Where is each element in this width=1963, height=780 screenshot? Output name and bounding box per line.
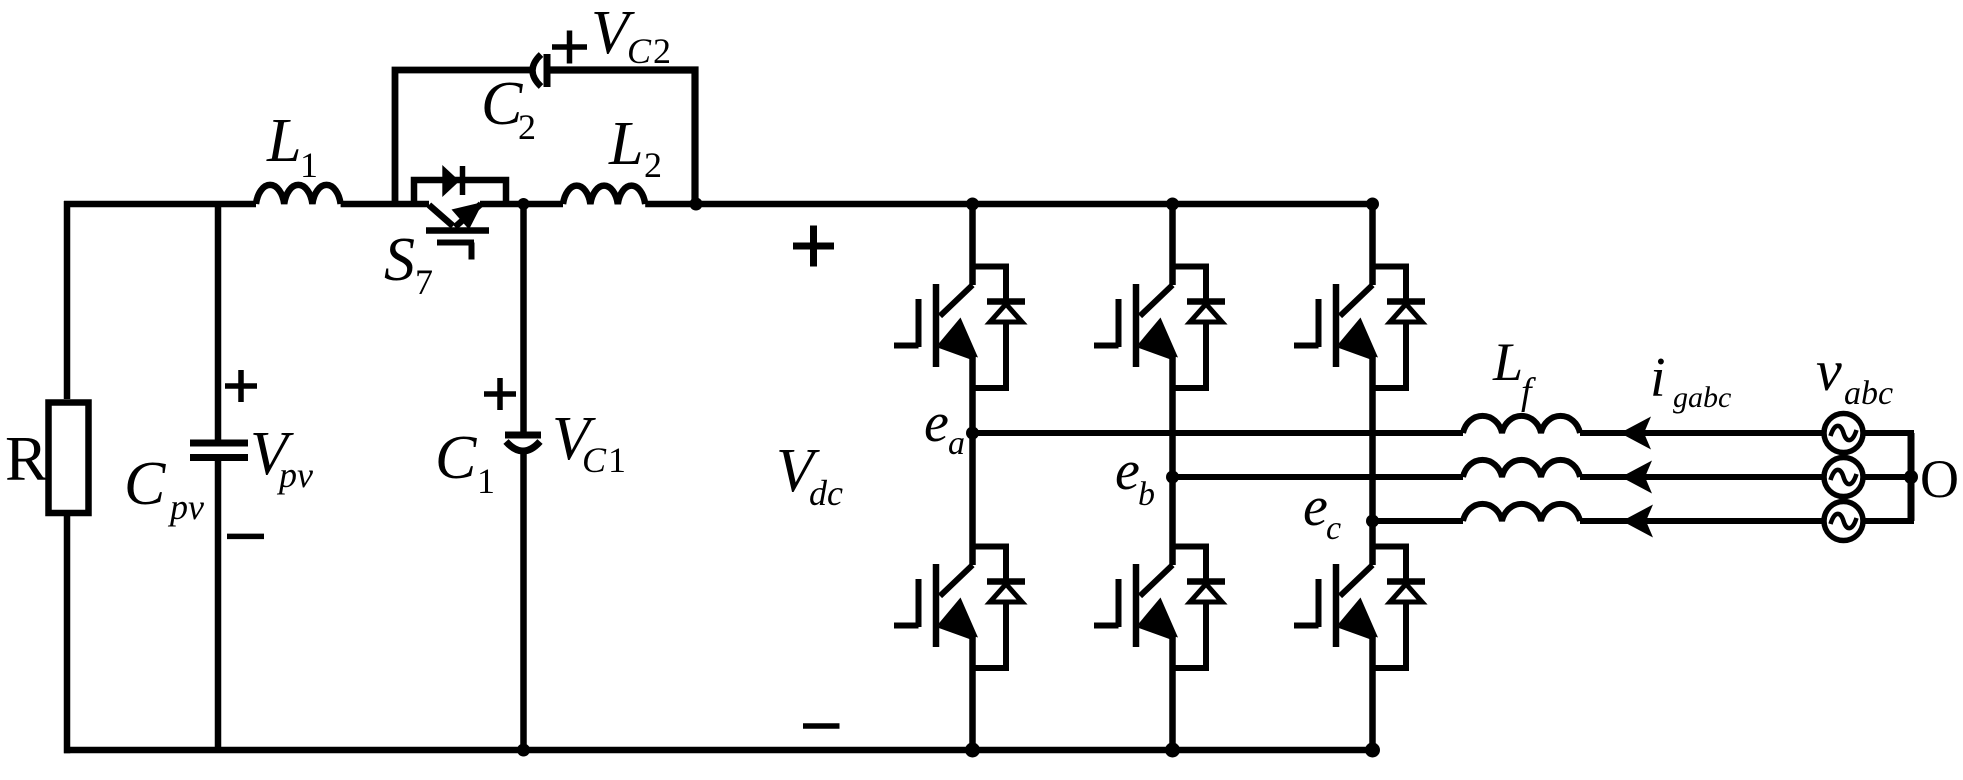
svg-text:R: R — [5, 423, 48, 494]
wire top rail right segment — [645, 201, 1376, 208]
arrow current phase b — [1621, 461, 1652, 494]
transistor S3 upper leg2 IGBT+diode — [1094, 267, 1225, 389]
transistor S5 upper leg3 IGBT+diode — [1294, 267, 1425, 389]
ac source c — [1824, 502, 1863, 541]
svg-text:7: 7 — [415, 262, 433, 302]
wire phase b line — [1173, 474, 1464, 480]
capacitor C1 straight plate — [505, 432, 541, 439]
inductor Lf c — [1463, 504, 1580, 521]
plus sign Vdc — [793, 226, 834, 267]
svg-text:dc: dc — [809, 473, 843, 513]
wire left vertical bottom — [64, 516, 71, 753]
svg-text:C: C — [481, 70, 523, 138]
inductor L1 — [256, 185, 341, 204]
wire phase b source to bus — [1863, 474, 1915, 480]
wire bridge leg 1 segments — [969, 204, 976, 750]
svg-text:C: C — [124, 450, 166, 518]
S7 IGBT emitter diagonal — [455, 204, 481, 227]
wire bridge leg 2 segments — [1169, 204, 1176, 750]
svg-text:L: L — [608, 110, 643, 178]
svg-text:1: 1 — [300, 145, 318, 185]
wire Cpv branch upper — [215, 204, 222, 443]
S7 IGBT emitter arrow — [452, 202, 484, 230]
wire top rail mid segment — [341, 201, 429, 208]
junction dots top rail — [966, 198, 979, 211]
wire phase c line — [1373, 518, 1464, 524]
capacitor C2 straight plate — [544, 54, 551, 87]
svg-text:c: c — [1326, 510, 1341, 547]
wire C1 branch lower — [520, 449, 527, 750]
svg-text:pv: pv — [276, 455, 313, 495]
svg-text:1: 1 — [608, 440, 626, 480]
wire top rail left segment — [64, 201, 256, 208]
plus sign Cpv — [225, 370, 257, 402]
inductor Lf a — [1463, 416, 1580, 433]
svg-text:2: 2 — [653, 31, 671, 71]
S7 freewheel diode triangle — [442, 165, 459, 197]
svg-text:2: 2 — [644, 145, 662, 185]
arrow current phase a — [1620, 417, 1651, 450]
svg-text:O: O — [1920, 449, 1959, 509]
ac source a — [1824, 414, 1863, 453]
svg-text:a: a — [948, 425, 965, 462]
transistor S2 lower leg3 IGBT+diode — [1294, 547, 1425, 669]
transistor S1 upper leg1 IGBT+diode — [894, 267, 1025, 389]
svg-text:L: L — [1492, 332, 1523, 392]
wire C1 branch upper — [520, 204, 527, 435]
ac source b — [1824, 458, 1863, 497]
svg-text:C: C — [435, 424, 477, 492]
wire segment S7 to C1 junction to L2 — [480, 201, 563, 208]
wire bridge leg 3 segments — [1369, 204, 1376, 750]
plus sign C1 — [484, 378, 516, 410]
resistor R — [49, 403, 89, 514]
junction dot phase c — [1366, 515, 1379, 528]
svg-text:C: C — [627, 31, 652, 71]
transistor S6 lower leg2 IGBT+diode — [1094, 547, 1225, 669]
junction dot phase a — [966, 427, 979, 440]
svg-text:1: 1 — [477, 461, 495, 501]
svg-text:e: e — [924, 392, 949, 454]
wire phase b to source — [1580, 474, 1825, 480]
svg-text:v: v — [1816, 338, 1842, 403]
S7 IGBT collector diagonal — [429, 205, 453, 226]
inductor Lf b — [1463, 460, 1580, 477]
wire phase a source to bus — [1863, 430, 1915, 436]
capacitor C2 curved plate — [533, 55, 542, 87]
svg-text:e: e — [1115, 440, 1140, 502]
junction dot L2/C2 — [690, 198, 703, 211]
junction dots bottom rail — [517, 744, 530, 757]
wire phase c to source — [1580, 518, 1825, 524]
C2 loop top right wire and right vertical — [547, 70, 695, 204]
svg-text:S: S — [384, 226, 415, 294]
svg-text:2: 2 — [518, 107, 536, 147]
wire phase c source to bus — [1863, 518, 1915, 524]
wire phase a to source — [1580, 430, 1825, 436]
S7 IGBT gate bar — [437, 240, 474, 246]
wire Cpv branch lower — [215, 458, 222, 751]
S7 freewheel diode cathode bar — [460, 166, 466, 195]
plus sign C2 — [552, 31, 587, 64]
svg-text:e: e — [1303, 476, 1328, 538]
minus sign Cpv — [227, 534, 264, 540]
svg-text:L: L — [266, 107, 301, 175]
arrow current phase c — [1622, 505, 1653, 538]
wire right bus vertical — [1908, 433, 1915, 521]
wire phase a line — [973, 430, 1464, 436]
wire left vertical top — [64, 201, 71, 399]
transistor S4 lower leg1 IGBT+diode — [894, 547, 1025, 669]
junction dot S7/C1 — [518, 198, 530, 210]
svg-text:b: b — [1138, 476, 1155, 513]
svg-text:i: i — [1650, 347, 1666, 409]
svg-text:gabc: gabc — [1673, 381, 1731, 414]
C2 loop left vertical and top wire — [395, 70, 530, 204]
S7 diode loop wire — [414, 180, 506, 204]
capacitor Cpv plates — [190, 440, 248, 447]
wire bottom rail — [64, 747, 1376, 754]
svg-text:abc: abc — [1844, 375, 1893, 412]
inductor L2 — [563, 186, 645, 204]
minus sign Vdc — [803, 723, 840, 729]
svg-text:pv: pv — [167, 487, 204, 527]
svg-text:C: C — [582, 440, 607, 480]
S7 IGBT gate lead — [469, 243, 475, 260]
junction dot node O — [1904, 470, 1918, 484]
svg-text:f: f — [1521, 371, 1536, 413]
junction dot phase b — [1166, 471, 1179, 484]
S7 IGBT body bar — [426, 227, 489, 234]
capacitor C1 curved plate — [506, 442, 540, 452]
